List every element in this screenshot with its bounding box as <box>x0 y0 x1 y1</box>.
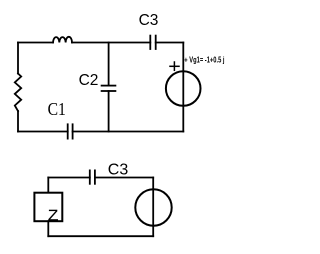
svg-text:+ Vg1= -1+0.5 j: + Vg1= -1+0.5 j <box>184 57 224 65</box>
wire C2 branch lower <box>108 91 110 132</box>
inductor L1 <box>53 37 72 43</box>
plus polarity mark <box>170 62 179 70</box>
wire bottom circuit bottom segment <box>48 235 153 237</box>
wire into impedance box <box>47 178 49 193</box>
wire top-right segment <box>156 42 184 44</box>
svg-text:C3: C3 <box>139 12 159 29</box>
wire bottom-right segment <box>73 131 184 133</box>
wire top-left segment <box>18 42 53 44</box>
capacitor C3 <box>150 36 155 49</box>
wire left vertical upper <box>17 43 19 74</box>
source circle (bottom circuit) <box>135 189 171 225</box>
wire bottom circuit top-right segment <box>95 177 153 179</box>
wire C2 branch upper <box>108 43 110 86</box>
capacitor C1 <box>68 124 73 138</box>
wire left vertical lower <box>17 111 19 132</box>
wire bottom circuit right vertical <box>152 178 154 237</box>
wire out of impedance box <box>47 221 49 236</box>
wire bottom-left segment <box>18 131 68 133</box>
wire right vertical <box>182 43 184 132</box>
label Z <box>48 210 58 220</box>
capacitor C3 (bottom circuit) <box>90 170 95 183</box>
svg-text:C1: C1 <box>48 99 66 119</box>
svg-text:C2: C2 <box>79 72 99 89</box>
capacitor C2 <box>102 86 116 91</box>
wire bottom circuit top-left segment <box>48 177 90 179</box>
resistor R1 <box>15 74 21 112</box>
impedance box Z <box>34 193 62 222</box>
voltage source U1 circle <box>166 71 201 106</box>
svg-text:C3: C3 <box>108 162 129 179</box>
wire top-middle segment <box>72 42 150 44</box>
